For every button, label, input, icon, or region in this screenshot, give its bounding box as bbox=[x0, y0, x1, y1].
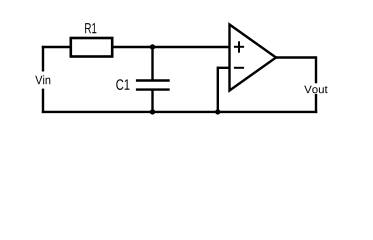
wire: resistor to node A bbox=[113, 46, 152, 48]
junction dot: C1 bottom lead on rail bbox=[150, 109, 155, 114]
wire: output vertical lower segment bbox=[315, 94, 317, 113]
label C1 bbox=[116, 79, 129, 90]
op-amp plus sign on non-inverting input bbox=[234, 41, 244, 52]
wire: output vertical upper segment (Vout lead) bbox=[315, 56, 317, 83]
wire: left vertical lower segment bbox=[42, 89, 44, 114]
node A junction dot (R1 / C1 / op-amp input) bbox=[150, 44, 155, 49]
wire: op-amp output horizontal bbox=[276, 56, 316, 58]
capacitor C1 bottom lead bbox=[151, 90, 153, 112]
wire: left vertical upper segment (Vin lead) bbox=[42, 46, 44, 72]
capacitor C1 bottom plate bbox=[136, 88, 170, 90]
label R1 bbox=[85, 23, 96, 33]
capacitor C1 top plate bbox=[136, 79, 170, 81]
wire: node A to op-amp non-inverting input bbox=[153, 46, 230, 48]
label Vout bbox=[304, 86, 327, 94]
resistor R1 body bbox=[71, 38, 112, 57]
op-amp U1 triangle body bbox=[230, 25, 277, 91]
wire: inverting input stub bbox=[218, 67, 230, 69]
junction dot: feedback wire on rail bbox=[215, 109, 220, 114]
wire: top horizontal from Vin lead to resistor bbox=[42, 46, 70, 48]
wire: feedback vertical from inverting input down to rail bbox=[217, 67, 219, 112]
op-amp minus sign on inverting input bbox=[234, 67, 244, 69]
capacitor C1 top lead bbox=[151, 47, 153, 81]
label Vin bbox=[35, 75, 50, 84]
wire: bottom rail bbox=[42, 111, 317, 113]
